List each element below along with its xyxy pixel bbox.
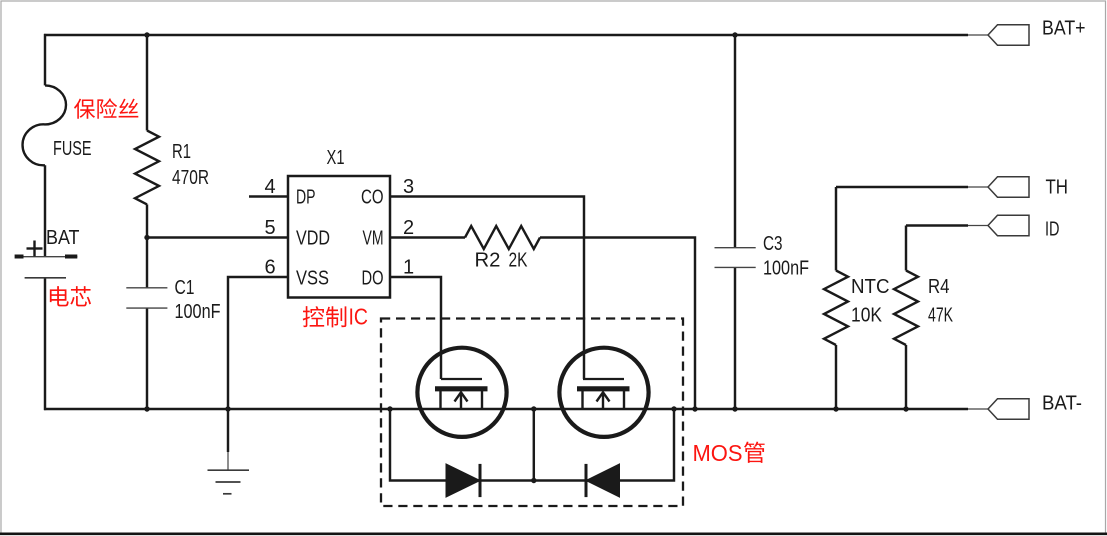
- wire IC pin 6 VSS down: [228, 277, 288, 409]
- junction C1 / bottom rail: [144, 406, 149, 411]
- svg-text:100nF: 100nF: [175, 301, 221, 323]
- resistor R4 47K: [894, 271, 953, 346]
- ground: [208, 452, 250, 494]
- wire R2 to bottom rail: [540, 238, 695, 410]
- wire BAT+ top rail: [44, 34, 968, 36]
- svg-text:VSS: VSS: [296, 267, 329, 289]
- svg-text:DO: DO: [362, 267, 384, 289]
- wire top rail to C3: [734, 34, 736, 248]
- wire VM pin 2 to R2: [390, 236, 465, 238]
- wire diode branch: [390, 409, 674, 481]
- junction mid tap bottom: [531, 478, 536, 483]
- svg-text:1: 1: [403, 257, 414, 279]
- svg-text:4: 4: [264, 176, 275, 198]
- svg-text:CO: CO: [361, 187, 384, 209]
- junction NTC / bottom rail: [833, 406, 838, 411]
- resistor R1 470R: [135, 131, 209, 205]
- thermistor NTC 10K: [824, 271, 890, 346]
- node TH net flag: [968, 177, 1068, 199]
- wire node to C1: [146, 238, 148, 288]
- wire CO pin 3 to Q2 gate: [390, 197, 584, 380]
- svg-text:10K: 10K: [851, 305, 883, 327]
- svg-text:NTC: NTC: [851, 276, 890, 298]
- svg-text:X1: X1: [327, 147, 345, 169]
- wire fuse to battery: [44, 165, 46, 256]
- svg-text:2: 2: [403, 217, 414, 239]
- svg-text:VDD: VDD: [296, 228, 330, 250]
- capacitor C1 100nF: [126, 277, 220, 323]
- junction top rail / R1: [144, 32, 149, 37]
- svg-text:R1: R1: [172, 141, 191, 163]
- svg-text:R4: R4: [928, 276, 950, 298]
- diode D1 (body diode, pointing right): [446, 464, 480, 497]
- red label 控制IC (control IC): [303, 306, 347, 327]
- svg-text:FUSE: FUSE: [53, 138, 92, 160]
- wire mid diode tap: [533, 409, 535, 481]
- wire battery- down: [44, 278, 46, 410]
- wire R1 to VDD node: [146, 204, 148, 237]
- svg-text:BAT-: BAT-: [1042, 393, 1082, 415]
- svg-text:ID: ID: [1045, 219, 1060, 241]
- svg-text:100nF: 100nF: [763, 258, 809, 280]
- svg-text:2K: 2K: [509, 250, 529, 272]
- wire R4 to ID flag: [906, 224, 968, 226]
- svg-text:R2: R2: [475, 250, 501, 272]
- fuse FUSE: [23, 85, 92, 165]
- junction VDD node: [144, 235, 149, 240]
- junction diode left: [387, 406, 392, 411]
- wire TH to NTC: [835, 187, 837, 271]
- svg-text:3: 3: [403, 176, 414, 198]
- wire to ground: [227, 409, 229, 452]
- svg-text:470R: 470R: [172, 167, 209, 189]
- wire BAT- bottom rail: [44, 408, 968, 410]
- svg-text:47K: 47K: [928, 305, 953, 327]
- svg-text:DP: DP: [296, 187, 316, 209]
- svg-text:C3: C3: [763, 233, 783, 255]
- svg-text:BAT+: BAT+: [1042, 18, 1086, 40]
- svg-text:C1: C1: [175, 277, 195, 299]
- junction ground / bottom rail: [225, 406, 230, 411]
- red label 电芯 (battery cell): [50, 286, 91, 306]
- transistor Q2 (MOSFET): [559, 348, 648, 437]
- wire VDD to IC pin 5: [147, 236, 288, 238]
- junction top rail / C3: [732, 32, 737, 37]
- diode D2 (body diode, pointing left): [586, 464, 620, 497]
- wire battery+ to fuse: [44, 34, 46, 86]
- wire C3 to bottom rail: [734, 267, 736, 409]
- svg-text:IC: IC: [349, 304, 369, 330]
- junction R4 / bottom rail: [903, 406, 908, 411]
- svg-text:TH: TH: [1046, 177, 1069, 199]
- node BAT- net flag: [968, 393, 1082, 420]
- svg-text:5: 5: [264, 217, 275, 239]
- op-amp / protection IC U1 X1: [288, 147, 390, 298]
- node BAT+ net flag: [968, 18, 1086, 46]
- wire top rail to R1: [146, 34, 148, 131]
- pin 4 stub: [249, 195, 288, 197]
- junction diode right: [671, 406, 676, 411]
- node ID net flag: [968, 215, 1060, 240]
- dashed box (dual MOSFET module): [381, 319, 683, 507]
- transistor Q1 (MOSFET): [417, 348, 506, 437]
- svg-text:MOS: MOS: [693, 440, 743, 466]
- capacitor C3 100nF: [715, 233, 810, 280]
- red label 保险丝 (fuse): [74, 98, 138, 118]
- junction C3 / bottom rail: [732, 406, 737, 411]
- junction mid tap top: [531, 406, 536, 411]
- svg-text:BAT: BAT: [46, 227, 80, 249]
- svg-text:VM: VM: [363, 228, 384, 250]
- junction R2 / bottom rail: [692, 406, 697, 411]
- wire C1 to bottom rail: [146, 308, 148, 409]
- wire NTC to bottom rail: [835, 345, 837, 409]
- svg-text:6: 6: [264, 257, 275, 279]
- resistor R2 2K: [465, 226, 540, 272]
- wire DO pin 1 to Q1 gate: [390, 277, 441, 379]
- wire NTC to TH flag: [836, 186, 968, 188]
- wire R4 to bottom rail: [905, 345, 907, 409]
- wire ID to R4: [905, 226, 907, 271]
- battery BAT: [15, 227, 80, 278]
